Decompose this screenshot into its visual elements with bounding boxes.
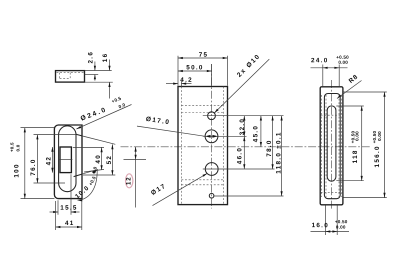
- leader dia17.0: [137, 126, 205, 136]
- dimension 118.0 +-0.1: [281, 116, 283, 196]
- svg-text:Ø24.0: Ø24.0: [80, 106, 108, 122]
- dimension 52: [111, 144, 113, 175]
- dimension 76.0: [36, 135, 38, 183]
- inner slot stadium: [327, 106, 336, 181]
- hidden line right inner: [338, 95, 340, 197]
- extension line 76 top: [34, 134, 77, 136]
- extension line 52 bottom: [83, 174, 115, 176]
- svg-text:50.0: 50.0: [186, 64, 203, 71]
- extension line flange: [85, 74, 99, 76]
- hole circle 2 dia17: [205, 130, 218, 143]
- dimension 42: [51, 147, 53, 173]
- svg-text:32.0: 32.0: [239, 118, 246, 135]
- circle3 center mark / ext line 166.9: [203, 168, 275, 170]
- svg-text:156.0: 156.0: [374, 145, 381, 167]
- extension line 50 center: [211, 64, 213, 86]
- svg-text:Ø17: Ø17: [150, 182, 168, 196]
- extension line 40 top: [73, 146, 104, 148]
- svg-text:0.00: 0.00: [355, 131, 360, 141]
- front view vertical centerline: [211, 64, 213, 209]
- leader dia17 to circle3: [153, 173, 208, 205]
- hidden line 4.2 offset: [180, 87, 182, 205]
- angle dimension 10.0 +0.5/0.0 arc: [78, 170, 98, 200]
- dimension 45.0: [260, 116, 262, 147]
- chamfer top diagonal extension: [82, 136, 115, 144]
- main horizontal centerline: [121, 146, 371, 148]
- chamfer bottom diagonal extension: [82, 169, 98, 174]
- dimension 46.0: [243, 136, 245, 169]
- svg-text:75: 75: [199, 52, 209, 59]
- extension line 15.5 right: [70, 174, 72, 215]
- hidden line left inner: [325, 95, 327, 197]
- svg-text:40: 40: [95, 154, 102, 164]
- dimension 118 +0.50/0.00: [361, 106, 363, 181]
- hidden line right outer: [340, 95, 342, 197]
- extension line 100 top: [21, 127, 55, 129]
- top view hidden slot right: [69, 73, 71, 79]
- hidden line left outer: [321, 95, 323, 197]
- svg-text:42: 42: [45, 156, 52, 166]
- top view hidden slot left: [59, 73, 61, 79]
- slot right side: [75, 135, 77, 183]
- svg-text:0.00: 0.00: [338, 60, 348, 65]
- dimension 16: [109, 60, 111, 71]
- svg-text:118.0 ±0.1: 118.0 ±0.1: [275, 131, 282, 173]
- dimension 12 line: [135, 147, 137, 208]
- svg-text:100: 100: [14, 163, 21, 177]
- dimension 2.6: [94, 62, 96, 71]
- svg-text:0.00: 0.00: [377, 131, 382, 141]
- svg-text:+0.50: +0.50: [335, 219, 348, 224]
- svg-text:16.0: 16.0: [312, 222, 329, 229]
- extension line 100 bottom: [21, 198, 55, 200]
- extension line 118 top: [336, 105, 364, 107]
- leader 2x dia10: [214, 59, 269, 113]
- top view hidden flange line: [57, 72, 85, 74]
- svg-text:12: 12: [127, 177, 133, 185]
- dia17.0 dim arrows in circle2: [205, 135, 211, 138]
- slot left side: [58, 135, 60, 183]
- inner boss rectangle: [60, 147, 71, 173]
- svg-text:2.6: 2.6: [87, 51, 94, 64]
- left view outline: [54, 125, 82, 199]
- chamfer top diagonal: [76, 134, 82, 136]
- dimension 15.5: [50, 211, 59, 213]
- extension line 40 bottom: [84, 169, 104, 172]
- extension line 76 bottom: [34, 182, 66, 184]
- circle4 center mark / ext line 197.1: [214, 195, 283, 197]
- dimension 156.0 +0.50/0.00: [384, 92, 386, 198]
- dimension 100 +0.5/0.0: [24, 128, 26, 199]
- svg-text:41: 41: [65, 220, 75, 227]
- extension line 24 left: [322, 65, 324, 87]
- extension line bottom edge: [85, 81, 113, 83]
- svg-text:45.0: 45.0: [253, 125, 260, 142]
- dimension 32.0: [243, 116, 245, 137]
- hidden slot line top2: [181, 112, 223, 114]
- svg-text:15.5: 15.5: [60, 205, 77, 212]
- svg-text:24.0: 24.0: [311, 57, 328, 64]
- dimension 75: [178, 57, 228, 59]
- hidden slot line bottom2: [181, 184, 223, 186]
- extension line 41 right: [81, 201, 83, 230]
- extension line 156 bottom: [344, 197, 387, 199]
- dimension 78.0: [272, 116, 274, 169]
- dimension 50.0: [178, 70, 212, 72]
- front view outline: [178, 87, 228, 205]
- extension line 16 left: [325, 205, 327, 235]
- balloon ellipse markup: [126, 174, 133, 188]
- svg-text:Ø17.0: Ø17.0: [145, 116, 170, 127]
- svg-text:0.0: 0.0: [15, 144, 20, 151]
- top view hidden slot bottom: [60, 77, 71, 79]
- R8 slot rounded rect: [324, 94, 340, 199]
- top view outline: [56, 71, 85, 83]
- extension line 24 right: [338, 65, 340, 87]
- slot bottom dome: [59, 183, 76, 192]
- hidden line right: [223, 87, 225, 205]
- dimension 16.0 +0.50/0.00: [311, 231, 350, 233]
- right view outline: [320, 87, 343, 205]
- extension line top edge: [85, 70, 112, 72]
- svg-text:46.0: 46.0: [237, 147, 244, 164]
- svg-text:78.0: 78.0: [266, 139, 273, 156]
- extension line for 12 dim: [124, 159, 147, 161]
- hidden slot line bottom1: [181, 179, 223, 181]
- hole circle 4 dia10: [209, 193, 214, 198]
- svg-text:118: 118: [352, 149, 359, 163]
- dimension 4.2: [166, 83, 178, 85]
- circle2 center mark / ext line 136.7: [203, 135, 247, 137]
- slot top dome R12: [59, 126, 76, 135]
- hole circle 1 dia10: [208, 112, 216, 120]
- svg-text:0.0: 0.0: [118, 102, 127, 109]
- extension line 118 bottom: [336, 180, 364, 182]
- svg-text:76.0: 76.0: [30, 158, 37, 175]
- dimension 40: [101, 148, 103, 171]
- leader R8: [337, 81, 362, 99]
- extension line 75 right: [227, 56, 229, 86]
- leader dia 24.0 +0.5/0.0: [76, 105, 131, 130]
- hidden row upper: [321, 114, 343, 116]
- inner boss centerline: [59, 159, 72, 161]
- svg-text:0.00: 0.00: [336, 225, 346, 230]
- hidden slot line top1: [181, 104, 223, 106]
- dimension 41: [56, 226, 82, 228]
- svg-text:+0.5: +0.5: [10, 142, 15, 152]
- svg-text:52: 52: [106, 155, 113, 165]
- extension line 75 left: [177, 56, 179, 86]
- svg-text:16: 16: [102, 53, 109, 63]
- hidden row lower: [321, 191, 343, 193]
- dimension 24.0 +0.50/0.00: [311, 67, 348, 69]
- right view vertical centerline: [331, 80, 333, 209]
- hole circle 3 dia17: [205, 163, 218, 176]
- extension line 15.5 left: [57, 200, 59, 215]
- extension line 16 right: [336, 205, 338, 235]
- extension line 156 top: [344, 91, 387, 93]
- svg-text:4.2: 4.2: [180, 77, 193, 84]
- circle1 center mark / ext line 115.6: [203, 115, 284, 117]
- svg-text:2x Ø10: 2x Ø10: [236, 53, 262, 79]
- chamfer bottom diagonal: [74, 174, 82, 177]
- extension line 41 left: [55, 201, 57, 230]
